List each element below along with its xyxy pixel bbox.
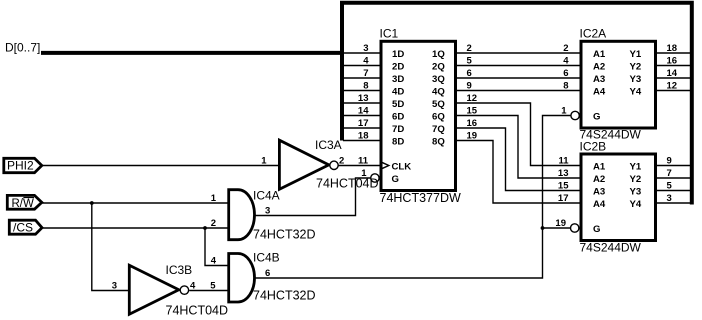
svg-text:IC3A: IC3A — [315, 138, 342, 152]
svg-text:2D: 2D — [392, 62, 404, 73]
svg-text:74HCT04D: 74HCT04D — [316, 177, 379, 191]
svg-text:1Q: 1Q — [432, 49, 445, 60]
svg-text:4Q: 4Q — [432, 87, 445, 98]
svg-text:A3: A3 — [593, 187, 605, 198]
svg-text:A2: A2 — [593, 174, 605, 185]
svg-text:6: 6 — [265, 268, 270, 279]
svg-text:16: 16 — [667, 55, 678, 66]
svg-text:3Q: 3Q — [432, 74, 445, 85]
svg-text:A3: A3 — [593, 74, 605, 85]
svg-text:G: G — [593, 224, 600, 235]
svg-text:IC4B: IC4B — [253, 251, 280, 265]
svg-text:7: 7 — [363, 68, 368, 79]
svg-text:8Q: 8Q — [432, 137, 445, 148]
svg-text:2: 2 — [563, 43, 568, 54]
svg-text:6: 6 — [467, 68, 472, 79]
svg-text:Y3: Y3 — [630, 74, 642, 85]
svg-text:7D: 7D — [392, 124, 404, 135]
svg-text:15: 15 — [467, 105, 478, 116]
svg-text:G: G — [593, 112, 600, 123]
svg-text:3: 3 — [112, 280, 117, 291]
svg-text:13: 13 — [558, 168, 569, 179]
svg-text:A2: A2 — [593, 62, 605, 73]
svg-text:2Q: 2Q — [432, 62, 445, 73]
svg-text:74HCT32D: 74HCT32D — [253, 228, 316, 242]
svg-text:18: 18 — [358, 130, 369, 141]
svg-text:A1: A1 — [593, 162, 606, 173]
svg-text:1: 1 — [561, 105, 567, 116]
svg-text:74HCT377DW: 74HCT377DW — [380, 191, 461, 205]
svg-text:2: 2 — [339, 155, 344, 166]
svg-text:G: G — [392, 174, 399, 185]
svg-text:4: 4 — [211, 255, 217, 266]
svg-text:A4: A4 — [593, 199, 606, 210]
svg-text:15: 15 — [558, 180, 569, 191]
svg-text:3: 3 — [265, 205, 270, 216]
svg-text:8D: 8D — [392, 137, 404, 148]
svg-text:5Q: 5Q — [432, 99, 445, 110]
svg-text:7: 7 — [667, 168, 672, 179]
svg-text:Y2: Y2 — [630, 62, 642, 73]
svg-text:8: 8 — [363, 80, 368, 91]
svg-text:Y2: Y2 — [630, 174, 642, 185]
svg-text:18: 18 — [667, 43, 678, 54]
svg-text:Y1: Y1 — [630, 49, 642, 60]
svg-text:Y1: Y1 — [630, 162, 642, 173]
svg-text:4: 4 — [363, 55, 369, 66]
svg-text:1: 1 — [211, 193, 217, 204]
svg-text:3D: 3D — [392, 74, 404, 85]
svg-text:4: 4 — [190, 280, 196, 291]
svg-text:2: 2 — [467, 43, 472, 54]
svg-text:9: 9 — [667, 155, 672, 166]
svg-text:IC3B: IC3B — [166, 263, 193, 277]
svg-text:17: 17 — [358, 118, 369, 129]
svg-text:IC4A: IC4A — [253, 189, 280, 203]
svg-text:Y4: Y4 — [630, 87, 642, 98]
svg-text:IC2B: IC2B — [580, 140, 607, 154]
svg-text:74HCT04D: 74HCT04D — [166, 304, 229, 318]
svg-text:5: 5 — [667, 180, 673, 191]
svg-text:3: 3 — [667, 193, 672, 204]
svg-text:11: 11 — [358, 155, 369, 166]
svg-text:3: 3 — [363, 43, 368, 54]
svg-text:14: 14 — [358, 105, 369, 116]
svg-text:7Q: 7Q — [432, 124, 445, 135]
svg-text:12: 12 — [667, 80, 678, 91]
svg-text:IC2A: IC2A — [580, 27, 607, 41]
svg-text:9: 9 — [467, 80, 472, 91]
svg-text:74S244DW: 74S244DW — [580, 241, 642, 255]
svg-text:D[0..7]: D[0..7] — [5, 41, 40, 55]
svg-text:CLK: CLK — [392, 162, 412, 173]
svg-text:Y3: Y3 — [630, 187, 642, 198]
svg-text:8: 8 — [563, 80, 568, 91]
svg-text:19: 19 — [555, 218, 566, 229]
svg-text:17: 17 — [558, 193, 569, 204]
svg-text:4: 4 — [563, 55, 569, 66]
svg-text:12: 12 — [467, 93, 478, 104]
svg-text:4D: 4D — [392, 87, 404, 98]
svg-text:PHI2: PHI2 — [7, 159, 34, 173]
svg-text:1: 1 — [261, 155, 267, 166]
svg-text:13: 13 — [358, 93, 369, 104]
svg-text:1D: 1D — [392, 49, 404, 60]
svg-text:11: 11 — [558, 155, 569, 166]
svg-text:74S244DW: 74S244DW — [580, 128, 642, 142]
svg-text:6Q: 6Q — [432, 112, 445, 123]
svg-text:5: 5 — [467, 55, 473, 66]
svg-text:19: 19 — [467, 130, 478, 141]
svg-text:/CS: /CS — [13, 221, 33, 235]
svg-text:5D: 5D — [392, 99, 404, 110]
svg-text:IC1: IC1 — [380, 27, 399, 41]
svg-text:Y4: Y4 — [630, 199, 642, 210]
svg-text:14: 14 — [667, 68, 678, 79]
svg-text:5: 5 — [210, 280, 216, 291]
svg-text:6D: 6D — [392, 112, 404, 123]
svg-text:16: 16 — [467, 118, 478, 129]
svg-text:R/W: R/W — [12, 198, 35, 210]
svg-text:74HCT32D: 74HCT32D — [253, 289, 316, 303]
svg-text:A1: A1 — [593, 49, 606, 60]
svg-text:A4: A4 — [593, 87, 606, 98]
svg-text:6: 6 — [563, 68, 568, 79]
svg-text:2: 2 — [211, 218, 216, 229]
